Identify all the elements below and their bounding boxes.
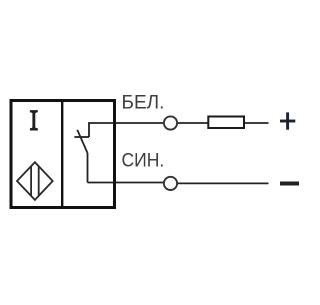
svg-text:БЕЛ.: БЕЛ. — [122, 93, 165, 114]
svg-text:СИН.: СИН. — [122, 150, 165, 171]
